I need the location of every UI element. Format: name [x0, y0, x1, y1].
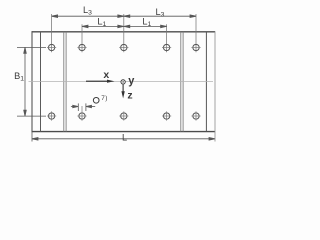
svg-text:y: y — [128, 75, 135, 87]
svg-text:x: x — [103, 69, 109, 81]
svg-text:7): 7) — [101, 95, 107, 102]
svg-text:z: z — [127, 89, 132, 101]
svg-text:L: L — [122, 132, 127, 142]
